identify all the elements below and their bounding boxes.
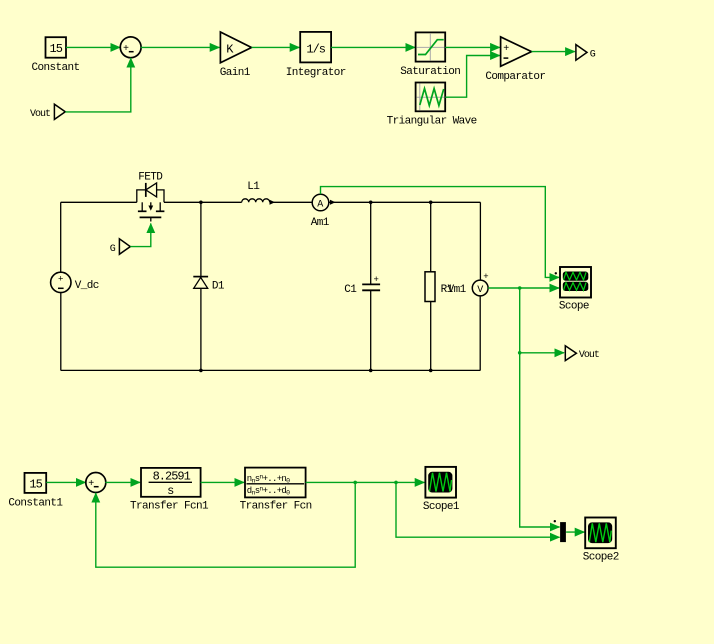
svg-text:L1: L1 [247, 181, 260, 193]
node Vout branch junction [518, 351, 522, 355]
voltmeter Vm1 [448, 202, 489, 370]
constant block "15" (Constant1) [8, 473, 63, 510]
svg-text:Integrator: Integrator [286, 67, 346, 79]
summing junction bottom [86, 473, 106, 493]
wire Constant1 to summer [46, 481, 85, 483]
wire summer to Transfer Fcn1 [105, 481, 140, 483]
svg-text:Scope2: Scope2 [583, 552, 619, 564]
node mux branch junction [394, 481, 398, 485]
scope Scope2 [583, 518, 619, 564]
svg-text:Vout: Vout [579, 350, 599, 361]
wire Mux to Scope2 [566, 531, 584, 533]
svg-text:Vm1: Vm1 [448, 284, 467, 296]
wire Saturation to Comparator plus input [445, 46, 500, 48]
node C1 bottom junction [369, 369, 373, 373]
svg-text:+: + [88, 479, 94, 490]
wire feedback loop [96, 482, 355, 567]
diode D1 [193, 202, 225, 370]
node FETD-D1 junction [199, 201, 203, 205]
svg-text:Triangular Wave: Triangular Wave [387, 115, 477, 127]
svg-text:Saturation: Saturation [400, 66, 460, 78]
mux block [554, 520, 566, 542]
svg-text:FETD: FETD [138, 171, 163, 183]
wire Transfer Fcn1 to Transfer Fcn [201, 481, 244, 483]
port G (gate input) [110, 239, 131, 255]
svg-text:+: + [503, 44, 509, 55]
summing junction top [120, 37, 141, 58]
wire down to Vout port branch [519, 288, 521, 353]
saturation block [400, 32, 460, 78]
wire branch to Mux input 2 [396, 482, 560, 537]
transistor FETD (MOSFET with antiparallel diode) [137, 171, 165, 221]
svg-text:Scope1: Scope1 [423, 501, 460, 513]
svg-text:15: 15 [50, 42, 63, 56]
wire (green) Vm1 output to Scope input 2 [488, 287, 559, 289]
node C1 top junction [369, 201, 373, 205]
port Vout (output) [565, 346, 599, 361]
node feedback junction [353, 481, 357, 485]
capacitor C1 [344, 202, 380, 370]
wire summer to Gain1 [141, 46, 220, 48]
wire left rail top [60, 202, 62, 272]
svg-text:+: + [123, 44, 129, 55]
wire Vout to summer (negative input) [65, 58, 131, 112]
node R1 top junction [429, 201, 433, 205]
wire G port to FETD gate [130, 224, 151, 247]
constant block "15" (Constant) [32, 37, 80, 74]
svg-text:Transfer Fcn1: Transfer Fcn1 [130, 500, 209, 512]
dc source V_dc [51, 272, 99, 292]
ammeter Am1 [311, 194, 330, 229]
svg-text:s: s [167, 484, 174, 498]
wire Gain1 to Integrator [252, 46, 300, 48]
svg-text:Vout: Vout [30, 109, 50, 120]
svg-text:C1: C1 [344, 284, 357, 296]
svg-text:Scope: Scope [559, 301, 589, 313]
svg-text:15: 15 [29, 477, 42, 491]
wire Vout signal down to Mux [520, 353, 560, 527]
wire Constant to summer [66, 46, 120, 48]
inductor L1 [242, 181, 312, 205]
svg-text:Comparator: Comparator [485, 71, 545, 83]
svg-text:8.2591: 8.2591 [153, 469, 191, 483]
transfer function block Transfer Fcn1 [130, 468, 209, 512]
svg-text:Constant: Constant [32, 62, 80, 74]
comparator block [485, 37, 545, 83]
integrator block 1/s [286, 32, 346, 79]
svg-text:Am1: Am1 [311, 217, 330, 229]
svg-text:Constant1: Constant1 [8, 498, 63, 510]
scope Scope1 [423, 467, 460, 513]
scope Scope (2 channel) [555, 267, 591, 313]
wire (green) Am1 current signal to Scope input 1 [321, 187, 560, 278]
wire to Vout port [520, 352, 564, 354]
svg-text:Gain1: Gain1 [220, 67, 251, 79]
svg-text:A: A [317, 200, 323, 211]
svg-text:V_dc: V_dc [75, 280, 99, 292]
wire FETD to L1 [164, 201, 242, 203]
port G (output) [576, 45, 596, 61]
wire bottom rail [61, 369, 481, 371]
resistor R1 [425, 202, 454, 370]
svg-text:+: + [483, 272, 488, 282]
wire Am1 to output node with direction arrow [329, 201, 481, 203]
gain block Gain1 [220, 32, 252, 79]
wire Comparator to port G [532, 51, 575, 53]
svg-text:V: V [477, 285, 483, 296]
svg-text:D1: D1 [212, 280, 225, 292]
transfer function block Transfer Fcn [240, 468, 312, 513]
wire Transfer Fcn to Scope1 [306, 481, 425, 483]
wire top rail to FETD [61, 201, 137, 203]
svg-text:+: + [58, 274, 63, 284]
node D1 bottom junction [199, 369, 203, 373]
node Vout signal junction [518, 286, 522, 290]
triangular wave block [387, 83, 477, 128]
svg-text:1/s: 1/s [306, 42, 325, 56]
port Vout (input, top-left) [30, 104, 65, 120]
wire left rail bottom [60, 293, 62, 371]
node R1 bottom junction [429, 369, 433, 373]
svg-text:+: + [374, 275, 379, 285]
wire Integrator to Saturation [331, 46, 415, 48]
svg-text:Transfer Fcn: Transfer Fcn [240, 500, 312, 512]
wire Triangular Wave to Comparator minus input [445, 56, 500, 98]
